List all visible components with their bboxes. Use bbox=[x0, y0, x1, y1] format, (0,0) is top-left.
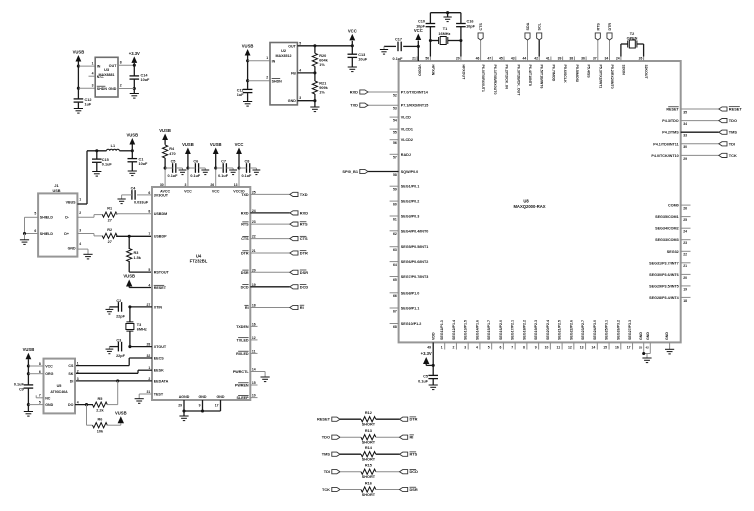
svg-text:32KIN: 32KIN bbox=[621, 65, 625, 76]
svg-text:20: 20 bbox=[456, 57, 460, 61]
svg-text:R21: R21 bbox=[319, 82, 326, 86]
svg-text:CTS: CTS bbox=[241, 237, 249, 241]
svg-text:0.1uF: 0.1uF bbox=[241, 174, 252, 178]
svg-text:VCC: VCC bbox=[184, 190, 192, 194]
svg-text:9: 9 bbox=[199, 404, 201, 408]
svg-text:54: 54 bbox=[393, 119, 397, 123]
svg-text:1%: 1% bbox=[319, 91, 325, 95]
svg-text:DCD: DCD bbox=[300, 284, 309, 289]
svg-text:RXD: RXD bbox=[350, 90, 358, 95]
svg-text:44: 44 bbox=[523, 57, 527, 61]
svg-text:TDO: TDO bbox=[729, 118, 737, 123]
svg-text:3: 3 bbox=[92, 84, 94, 88]
svg-text:TXD: TXD bbox=[300, 192, 308, 197]
svg-text:5: 5 bbox=[488, 346, 490, 350]
svg-text:P4.2/TMS: P4.2/TMS bbox=[662, 131, 679, 135]
svg-text:C14: C14 bbox=[141, 74, 149, 78]
svg-text:VUSB: VUSB bbox=[182, 142, 194, 147]
svg-text:P6.1/T0B/RX0UT0: P6.1/T0B/RX0UT0 bbox=[493, 65, 497, 95]
svg-text:42: 42 bbox=[645, 346, 649, 350]
svg-text:SEG6/P0.6/INT2: SEG6/P0.6/INT2 bbox=[401, 260, 428, 264]
svg-text:SEG9/P1.1: SEG9/P1.1 bbox=[401, 307, 419, 311]
svg-text:16: 16 bbox=[615, 346, 619, 350]
svg-text:63: 63 bbox=[393, 248, 397, 252]
svg-text:29: 29 bbox=[178, 404, 182, 408]
svg-text:C7: C7 bbox=[221, 160, 226, 164]
svg-text:GND: GND bbox=[646, 332, 650, 340]
svg-text:SEG27/P3.3: SEG27/P3.3 bbox=[628, 320, 632, 340]
svg-text:13: 13 bbox=[580, 346, 584, 350]
svg-text:604k: 604k bbox=[319, 59, 328, 63]
svg-text:6: 6 bbox=[148, 191, 150, 195]
svg-text:7: 7 bbox=[148, 232, 150, 236]
svg-text:R20: R20 bbox=[319, 54, 326, 58]
svg-text:TCK: TCK bbox=[729, 153, 737, 158]
svg-text:67: 67 bbox=[393, 309, 397, 313]
svg-text:VDDIO: VDDIO bbox=[418, 65, 422, 77]
svg-text:21: 21 bbox=[252, 249, 256, 253]
svg-text:P5.5/MOSI: P5.5/MOSI bbox=[575, 65, 579, 83]
svg-text:P5.6/SCLK: P5.6/SCLK bbox=[563, 65, 567, 84]
svg-text:SEG13/P1.5: SEG13/P1.5 bbox=[464, 320, 468, 340]
svg-text:1uF: 1uF bbox=[237, 93, 244, 97]
svg-text:OUT: OUT bbox=[109, 64, 117, 68]
svg-text:8: 8 bbox=[148, 210, 150, 214]
svg-text:52: 52 bbox=[393, 93, 397, 97]
svg-text:29: 29 bbox=[683, 157, 687, 161]
svg-text:56: 56 bbox=[393, 141, 397, 145]
svg-text:49: 49 bbox=[427, 346, 431, 350]
svg-text:7: 7 bbox=[511, 346, 513, 350]
svg-text:VCC: VCC bbox=[212, 190, 220, 194]
svg-text:GND: GND bbox=[665, 332, 669, 340]
svg-text:5: 5 bbox=[39, 401, 41, 405]
svg-text:DO: DO bbox=[68, 403, 74, 407]
svg-text:VLCD1: VLCD1 bbox=[401, 128, 413, 132]
svg-text:19: 19 bbox=[683, 287, 687, 291]
svg-text:15: 15 bbox=[603, 346, 607, 350]
svg-text:SEG22/P2.6: SEG22/P2.6 bbox=[569, 320, 573, 340]
svg-text:24: 24 bbox=[616, 57, 620, 61]
svg-text:C16: C16 bbox=[467, 20, 474, 24]
svg-text:MAX8512: MAX8512 bbox=[276, 54, 292, 58]
svg-text:10uF: 10uF bbox=[358, 58, 368, 62]
svg-text:C10: C10 bbox=[418, 20, 425, 24]
svg-text:U2: U2 bbox=[281, 48, 287, 53]
svg-text:VLCD2: VLCD2 bbox=[401, 138, 413, 142]
svg-text:DTR: DTR bbox=[608, 23, 612, 31]
svg-text:USB: USB bbox=[52, 189, 60, 193]
svg-text:2: 2 bbox=[266, 76, 268, 80]
svg-text:0.1uF: 0.1uF bbox=[14, 383, 25, 387]
svg-text:C3: C3 bbox=[116, 339, 121, 343]
svg-text:27: 27 bbox=[108, 219, 112, 223]
svg-text:909k: 909k bbox=[319, 86, 328, 90]
svg-text:SEG18/P2.2: SEG18/P2.2 bbox=[522, 320, 526, 340]
svg-text:21: 21 bbox=[683, 264, 687, 268]
svg-text:R16: R16 bbox=[365, 481, 372, 485]
svg-text:SEG30/P3.6/INT6: SEG30/P3.6/INT6 bbox=[649, 273, 679, 277]
svg-text:OPEN: OPEN bbox=[627, 36, 638, 40]
svg-text:4: 4 bbox=[299, 68, 301, 72]
svg-text:3: 3 bbox=[185, 183, 187, 187]
svg-text:C2: C2 bbox=[116, 299, 121, 303]
svg-text:P6.4/T1/INT5: P6.4/T1/INT5 bbox=[528, 65, 532, 86]
svg-text:5: 5 bbox=[299, 41, 301, 45]
svg-text:SPI0_B1: SPI0_B1 bbox=[342, 169, 358, 174]
svg-text:7: 7 bbox=[39, 394, 41, 398]
svg-text:SEG2/P0.2: SEG2/P0.2 bbox=[401, 200, 419, 204]
svg-text:C5: C5 bbox=[423, 375, 428, 379]
svg-text:39: 39 bbox=[558, 57, 562, 61]
svg-text:RXD: RXD bbox=[241, 211, 249, 215]
svg-text:59: 59 bbox=[393, 188, 397, 192]
svg-text:P5.3/TX2/INT1: P5.3/TX2/INT1 bbox=[598, 65, 602, 89]
svg-text:P7.0/TXD/INT14: P7.0/TXD/INT14 bbox=[401, 91, 429, 95]
svg-text:17: 17 bbox=[215, 404, 219, 408]
svg-text:18: 18 bbox=[252, 304, 256, 308]
svg-text:TEST: TEST bbox=[154, 393, 164, 397]
svg-text:38: 38 bbox=[569, 57, 573, 61]
svg-text:20: 20 bbox=[683, 276, 687, 280]
svg-text:TXLED: TXLED bbox=[237, 338, 249, 342]
svg-text:10: 10 bbox=[252, 394, 256, 398]
svg-text:GND: GND bbox=[68, 247, 76, 251]
svg-text:10pF: 10pF bbox=[416, 24, 426, 28]
svg-text:2: 2 bbox=[79, 211, 81, 215]
svg-text:R12: R12 bbox=[365, 411, 372, 415]
svg-text:ORG: ORG bbox=[45, 372, 53, 376]
svg-text:30: 30 bbox=[683, 145, 687, 149]
svg-text:4: 4 bbox=[79, 242, 81, 246]
svg-text:64: 64 bbox=[393, 263, 397, 267]
svg-text:CTS: CTS bbox=[479, 23, 483, 31]
svg-text:0.1uF: 0.1uF bbox=[168, 174, 179, 178]
svg-text:P5.2/RX2/INT0: P5.2/RX2/INT0 bbox=[610, 65, 614, 89]
svg-text:12: 12 bbox=[568, 346, 572, 350]
svg-text:EECS: EECS bbox=[154, 357, 165, 361]
svg-text:NC: NC bbox=[45, 396, 51, 400]
svg-text:1%: 1% bbox=[319, 63, 325, 67]
svg-text:2: 2 bbox=[120, 84, 122, 88]
svg-text:SEG17/P2.1: SEG17/P2.1 bbox=[511, 320, 515, 340]
svg-text:22: 22 bbox=[252, 235, 256, 239]
svg-text:6: 6 bbox=[500, 346, 502, 350]
svg-text:P4.3/TDO: P4.3/TDO bbox=[662, 119, 679, 123]
svg-text:50: 50 bbox=[425, 57, 429, 61]
svg-text:P6.5/T1B/INT6: P6.5/T1B/INT6 bbox=[540, 65, 544, 89]
svg-text:8: 8 bbox=[120, 61, 122, 65]
svg-text:23: 23 bbox=[252, 220, 256, 224]
svg-text:P4.0/TCK/INT10: P4.0/TCK/INT10 bbox=[651, 154, 678, 158]
svg-text:30: 30 bbox=[160, 183, 164, 187]
svg-text:R13: R13 bbox=[365, 429, 372, 433]
svg-text:DCD: DCD bbox=[241, 285, 249, 289]
svg-text:26: 26 bbox=[683, 207, 687, 211]
svg-text:TDI: TDI bbox=[324, 469, 330, 474]
svg-text:DCD: DCD bbox=[410, 469, 419, 474]
svg-text:SEG16/P2.0: SEG16/P2.0 bbox=[499, 320, 503, 340]
svg-text:AT93C46A: AT93C46A bbox=[50, 390, 68, 394]
svg-text:43: 43 bbox=[511, 57, 515, 61]
svg-text:12: 12 bbox=[252, 336, 256, 340]
svg-text:VLCD: VLCD bbox=[401, 116, 411, 120]
svg-text:1: 1 bbox=[92, 62, 94, 66]
svg-text:P6.3/T2B/CK_OUT: P6.3/T2B/CK_OUT bbox=[516, 65, 520, 97]
svg-text:R14: R14 bbox=[365, 446, 373, 450]
svg-text:RADJ: RADJ bbox=[401, 153, 411, 157]
svg-text:SEG4/P0.4/INT0: SEG4/P0.4/INT0 bbox=[401, 229, 428, 233]
svg-text:26: 26 bbox=[639, 57, 643, 61]
svg-text:6: 6 bbox=[34, 229, 36, 233]
svg-text:U5: U5 bbox=[57, 384, 62, 388]
svg-text:HFXOUT: HFXOUT bbox=[461, 65, 465, 81]
svg-text:1: 1 bbox=[79, 198, 81, 202]
svg-text:15: 15 bbox=[252, 381, 256, 385]
svg-text:1: 1 bbox=[441, 346, 443, 350]
svg-text:+3.3V: +3.3V bbox=[129, 51, 140, 56]
svg-text:68: 68 bbox=[393, 325, 397, 329]
svg-text:8: 8 bbox=[523, 346, 525, 350]
svg-text:0.1uF: 0.1uF bbox=[102, 163, 113, 167]
svg-text:TXD: TXD bbox=[241, 193, 249, 197]
svg-text:VUSB: VUSB bbox=[242, 44, 254, 49]
svg-text:IN: IN bbox=[272, 59, 276, 63]
svg-text:0.1uF: 0.1uF bbox=[218, 174, 229, 178]
svg-text:R5: R5 bbox=[97, 397, 102, 401]
svg-text:1: 1 bbox=[266, 56, 268, 60]
svg-text:DSR: DSR bbox=[241, 271, 249, 275]
svg-text:RI: RI bbox=[245, 306, 249, 310]
svg-text:0.033uF: 0.033uF bbox=[134, 200, 149, 204]
svg-text:VCC: VCC bbox=[348, 28, 357, 33]
svg-text:46: 46 bbox=[476, 57, 480, 61]
svg-text:R15: R15 bbox=[365, 464, 372, 468]
svg-text:RTS: RTS bbox=[596, 23, 600, 31]
svg-text:VUSB: VUSB bbox=[123, 274, 135, 279]
svg-text:22: 22 bbox=[683, 253, 687, 257]
svg-text:SCL: SCL bbox=[538, 22, 542, 30]
svg-text:IN: IN bbox=[97, 65, 101, 69]
svg-text:SHORT: SHORT bbox=[362, 458, 376, 462]
svg-text:DTR: DTR bbox=[410, 417, 418, 422]
svg-text:53: 53 bbox=[393, 107, 397, 111]
svg-text:D+: D+ bbox=[64, 232, 69, 236]
svg-text:SEG31/P3.7/INT7: SEG31/P3.7/INT7 bbox=[649, 261, 679, 265]
svg-text:C6: C6 bbox=[193, 160, 198, 164]
svg-text:36: 36 bbox=[581, 57, 585, 61]
svg-text:C13: C13 bbox=[358, 53, 365, 57]
svg-text:41: 41 bbox=[546, 57, 550, 61]
svg-text:SEG8/P1.0: SEG8/P1.0 bbox=[401, 291, 419, 295]
svg-text:31: 31 bbox=[147, 390, 151, 394]
svg-text:17: 17 bbox=[627, 346, 631, 350]
svg-text:SEG10/P1.2: SEG10/P1.2 bbox=[401, 322, 422, 326]
svg-text:RTS: RTS bbox=[300, 222, 308, 227]
svg-text:PWREN: PWREN bbox=[235, 384, 249, 388]
svg-text:SEG5/P0.5/INT1: SEG5/P0.5/INT1 bbox=[401, 245, 428, 249]
svg-text:R3: R3 bbox=[134, 251, 139, 255]
svg-text:SEG19/P2.3: SEG19/P2.3 bbox=[534, 320, 538, 340]
svg-text:L1: L1 bbox=[111, 144, 115, 148]
svg-text:0.1uF: 0.1uF bbox=[190, 174, 201, 178]
svg-text:XTIN: XTIN bbox=[154, 305, 163, 309]
svg-text:USBDM: USBDM bbox=[154, 212, 168, 216]
svg-text:RTS: RTS bbox=[410, 452, 418, 457]
svg-text:GND: GND bbox=[45, 403, 53, 407]
svg-text:EESK: EESK bbox=[154, 369, 164, 373]
svg-text:SEG33/COM3: SEG33/COM3 bbox=[655, 238, 679, 242]
svg-text:35: 35 bbox=[683, 110, 687, 114]
svg-text:470: 470 bbox=[169, 152, 175, 156]
svg-text:GND: GND bbox=[639, 332, 643, 340]
svg-text:OUT: OUT bbox=[288, 44, 296, 48]
svg-text:T3: T3 bbox=[137, 323, 141, 327]
svg-text:XTOUT: XTOUT bbox=[154, 345, 167, 349]
svg-text:VUSB: VUSB bbox=[210, 142, 222, 147]
svg-text:4: 4 bbox=[92, 72, 94, 76]
svg-text:SEG25/P3.1: SEG25/P3.1 bbox=[605, 320, 609, 340]
svg-text:13: 13 bbox=[234, 183, 238, 187]
svg-text:57: 57 bbox=[393, 156, 397, 160]
svg-text:VDD: VDD bbox=[432, 332, 436, 340]
svg-text:4: 4 bbox=[148, 284, 150, 288]
svg-text:4: 4 bbox=[476, 346, 478, 350]
svg-text:HFXIN: HFXIN bbox=[431, 65, 435, 76]
svg-text:VUSB: VUSB bbox=[23, 347, 35, 352]
svg-text:SEG20/P2.4: SEG20/P2.4 bbox=[546, 320, 550, 340]
svg-text:DI: DI bbox=[70, 379, 74, 383]
svg-text:10uF: 10uF bbox=[141, 78, 151, 82]
svg-text:10pF: 10pF bbox=[466, 24, 476, 28]
svg-text:SEG24/P3.0: SEG24/P3.0 bbox=[593, 320, 597, 340]
svg-text:FB: FB bbox=[291, 71, 296, 75]
svg-text:SHORT: SHORT bbox=[362, 475, 376, 479]
svg-text:SHIELD: SHIELD bbox=[40, 232, 54, 236]
svg-text:SHDN: SHDN bbox=[272, 79, 283, 83]
svg-text:DSR: DSR bbox=[410, 487, 418, 492]
svg-text:SEG14/P1.6: SEG14/P1.6 bbox=[475, 320, 479, 340]
svg-text:SHORT: SHORT bbox=[362, 441, 376, 445]
svg-text:0.1uF: 0.1uF bbox=[418, 380, 429, 384]
svg-text:62: 62 bbox=[393, 232, 397, 236]
svg-text:C9: C9 bbox=[19, 388, 24, 392]
svg-text:VCC: VCC bbox=[45, 365, 53, 369]
svg-text:66: 66 bbox=[393, 294, 397, 298]
svg-text:VCC: VCC bbox=[235, 142, 244, 147]
svg-text:DTR: DTR bbox=[241, 252, 249, 256]
svg-text:N.C.: N.C. bbox=[97, 75, 104, 79]
svg-text:CTS: CTS bbox=[300, 236, 308, 241]
svg-text:3: 3 bbox=[79, 229, 81, 233]
svg-text:EEDATA: EEDATA bbox=[154, 380, 169, 384]
svg-text:SHIELD: SHIELD bbox=[40, 216, 54, 220]
svg-text:10k: 10k bbox=[97, 429, 104, 433]
svg-text:SK: SK bbox=[68, 372, 73, 376]
svg-text:8: 8 bbox=[39, 362, 41, 366]
svg-text:SEG34/COM2: SEG34/COM2 bbox=[655, 227, 679, 231]
svg-text:FT232BL: FT232BL bbox=[190, 259, 208, 264]
svg-text:61: 61 bbox=[393, 217, 397, 221]
svg-text:MAXQ2000-RAX: MAXQ2000-RAX bbox=[513, 204, 545, 209]
svg-text:SHDN: SHDN bbox=[97, 87, 108, 91]
svg-text:P4.1/TDI/INT11: P4.1/TDI/INT11 bbox=[653, 142, 678, 146]
svg-text:DTR: DTR bbox=[300, 251, 308, 256]
svg-text:RXD: RXD bbox=[300, 210, 308, 215]
svg-text:25: 25 bbox=[683, 218, 687, 222]
svg-text:26: 26 bbox=[210, 183, 214, 187]
svg-text:SEG29/P3.5/INT5: SEG29/P3.5/INT5 bbox=[649, 284, 679, 288]
svg-text:PWRCTL: PWRCTL bbox=[233, 370, 250, 374]
svg-text:J1: J1 bbox=[54, 183, 59, 188]
svg-text:C8: C8 bbox=[244, 160, 249, 164]
svg-text:SLEEP: SLEEP bbox=[237, 396, 250, 400]
svg-text:TDI: TDI bbox=[729, 141, 735, 146]
svg-text:34: 34 bbox=[683, 122, 687, 126]
svg-text:14: 14 bbox=[592, 346, 596, 350]
svg-text:R1: R1 bbox=[107, 207, 112, 211]
svg-text:SDA: SDA bbox=[526, 22, 530, 30]
svg-text:RI: RI bbox=[410, 435, 414, 440]
svg-text:18: 18 bbox=[683, 299, 687, 303]
svg-text:C15: C15 bbox=[102, 158, 109, 162]
svg-text:VUSB: VUSB bbox=[159, 128, 171, 133]
svg-text:3: 3 bbox=[77, 377, 79, 381]
svg-text:P6.7/MOD: P6.7/MOD bbox=[551, 65, 555, 82]
svg-text:42: 42 bbox=[534, 57, 538, 61]
svg-text:U8: U8 bbox=[523, 198, 529, 203]
svg-text:SEG32: SEG32 bbox=[667, 250, 679, 254]
svg-text:TMS: TMS bbox=[729, 130, 738, 135]
svg-text:TCK: TCK bbox=[322, 487, 330, 492]
svg-text:RESET: RESET bbox=[729, 107, 743, 112]
svg-text:GND: GND bbox=[217, 395, 225, 399]
svg-text:20: 20 bbox=[252, 268, 256, 272]
svg-text:SHORT: SHORT bbox=[362, 493, 376, 497]
svg-text:P5.4/SS: P5.4/SS bbox=[587, 65, 591, 79]
svg-text:3: 3 bbox=[464, 346, 466, 350]
svg-text:SEG28/P3.4/INT4: SEG28/P3.4/INT4 bbox=[649, 296, 679, 300]
svg-text:3: 3 bbox=[299, 96, 301, 100]
svg-text:11: 11 bbox=[252, 349, 256, 353]
svg-text:1: 1 bbox=[77, 362, 79, 366]
svg-text:P6.0/T0/RX0UT1: P6.0/T0/RX0UT1 bbox=[481, 65, 485, 92]
svg-text:22pF: 22pF bbox=[116, 315, 126, 319]
svg-text:SQW/P0.0: SQW/P0.0 bbox=[401, 170, 418, 174]
svg-text:VUSB: VUSB bbox=[73, 50, 85, 55]
svg-text:RESET: RESET bbox=[317, 417, 331, 422]
svg-text:RXLED: RXLED bbox=[236, 352, 249, 356]
svg-text:C17: C17 bbox=[395, 38, 402, 42]
svg-text:SEG1/P0.1: SEG1/P0.1 bbox=[401, 185, 419, 189]
svg-text:2.2k: 2.2k bbox=[96, 409, 104, 413]
svg-text:DSR: DSR bbox=[300, 270, 308, 275]
svg-text:14: 14 bbox=[252, 368, 256, 372]
svg-text:9: 9 bbox=[535, 346, 537, 350]
svg-text:5: 5 bbox=[148, 268, 150, 272]
svg-text:GND: GND bbox=[108, 87, 116, 91]
svg-text:32KOUT: 32KOUT bbox=[644, 65, 648, 80]
svg-text:SEG23/P2.7: SEG23/P2.7 bbox=[581, 320, 585, 340]
svg-text:2: 2 bbox=[77, 369, 79, 373]
svg-text:TXD: TXD bbox=[350, 103, 358, 108]
svg-text:RI: RI bbox=[300, 305, 304, 310]
svg-text:33: 33 bbox=[683, 134, 687, 138]
svg-text:1.5k: 1.5k bbox=[134, 256, 142, 260]
svg-text:TXDEN: TXDEN bbox=[236, 325, 249, 329]
svg-text:SEG21/P2.5: SEG21/P2.5 bbox=[558, 320, 562, 340]
svg-text:SEG11/P1.3: SEG11/P1.3 bbox=[440, 320, 444, 340]
